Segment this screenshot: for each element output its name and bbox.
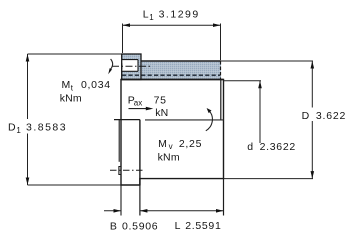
D1 dimension (28, 53, 123, 55)
bolt tab (119, 167, 122, 175)
M_v arc arrow (206, 111, 213, 131)
bearing washer band (blue stippled) (121, 61, 221, 80)
svg-text:L: L (143, 9, 150, 21)
B dimension (120, 185, 122, 216)
nipple axis dash-dot (112, 65, 151, 67)
svg-text:v: v (169, 142, 173, 151)
svg-text:D: D (8, 122, 16, 134)
svg-text:L: L (175, 220, 182, 232)
svg-text:1: 1 (149, 13, 154, 22)
grease nipple block (122, 54, 141, 80)
P_ax arrow (129, 108, 151, 110)
svg-text:kN: kN (155, 107, 168, 119)
axis cross tick (121, 63, 123, 69)
flange face line left (118, 120, 120, 162)
svg-text:2.5591: 2.5591 (185, 220, 221, 232)
band top edge (141, 60, 222, 62)
foot front edge vertical (139, 120, 141, 185)
bolt axis dash-dot (110, 169, 145, 171)
D dimension (221, 60, 313, 62)
band right edge (dashed) (220, 61, 222, 80)
L dimension (139, 185, 141, 216)
svg-text:t: t (71, 83, 74, 92)
housing outline (with bottom-left foot step) (121, 80, 224, 186)
svg-text:D: D (302, 110, 310, 122)
svg-text:0.5906: 0.5906 (122, 220, 158, 232)
bolt axis cross tick (120, 167, 122, 174)
svg-text:kNm: kNm (60, 93, 82, 105)
band bore dashed line (122, 74, 220, 76)
svg-text:3.1299: 3.1299 (159, 9, 200, 21)
svg-text:3.8583: 3.8583 (26, 122, 67, 134)
M_t arc arrow (110, 59, 113, 71)
svg-text:B: B (110, 220, 118, 232)
baseline (bottom reference) (28, 184, 122, 186)
inner vertical right wall (220, 80, 222, 120)
housing top edge under band (121, 79, 224, 81)
svg-text:75: 75 (154, 94, 167, 106)
svg-text:d: d (247, 141, 254, 153)
flange top divider line (right thin part) (145, 119, 224, 121)
flange top divider line (left thick part) (114, 119, 140, 121)
svg-text:1: 1 (16, 126, 21, 135)
svg-text:2,25: 2,25 (179, 138, 202, 150)
L1 dimension lines (123, 24, 221, 61)
svg-text:3.622: 3.622 (316, 110, 346, 122)
svg-text:M: M (62, 79, 71, 91)
svg-text:0,034: 0,034 (81, 79, 111, 91)
svg-text:2.3622: 2.3622 (260, 141, 296, 153)
svg-text:M: M (158, 138, 167, 150)
svg-text:kNm: kNm (158, 151, 180, 163)
svg-text:ax: ax (134, 99, 142, 108)
d dimension (224, 80, 262, 82)
